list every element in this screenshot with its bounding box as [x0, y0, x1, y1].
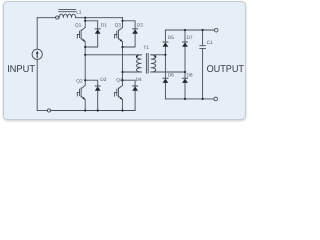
svg-text:Q1: Q1	[75, 23, 82, 29]
svg-text:INPUT: INPUT	[7, 64, 35, 75]
svg-text:D4: D4	[136, 77, 142, 83]
svg-text:C1: C1	[207, 40, 213, 46]
svg-text:L1: L1	[76, 9, 82, 15]
svg-text:T1: T1	[143, 45, 149, 51]
svg-text:D8: D8	[187, 73, 193, 79]
svg-text:D6: D6	[168, 73, 174, 79]
svg-text:D3: D3	[137, 23, 143, 29]
svg-text:D5: D5	[168, 35, 174, 41]
svg-text:Q2: Q2	[76, 79, 83, 85]
svg-text:Q3: Q3	[115, 22, 122, 28]
svg-text:D2: D2	[100, 77, 106, 83]
svg-text:Q4: Q4	[116, 77, 123, 83]
svg-text:D7: D7	[187, 35, 193, 41]
svg-text:D1: D1	[101, 22, 107, 28]
svg-text:OUTPUT: OUTPUT	[207, 64, 244, 75]
